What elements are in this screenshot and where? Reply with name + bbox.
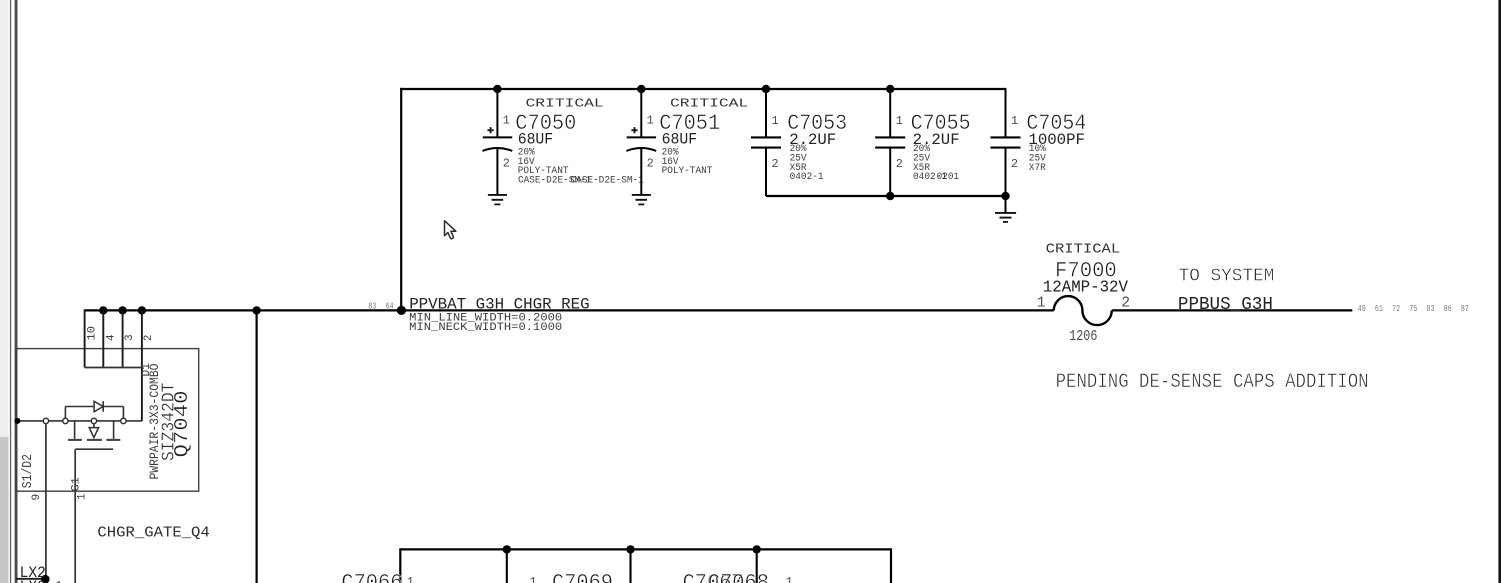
svg-text:86: 86 <box>1444 304 1452 314</box>
wire drain jog to pin2 <box>126 420 142 422</box>
body diode anode riser <box>64 407 66 419</box>
capacitor C7054 lead bottom <box>1005 148 1007 196</box>
svg-text:0402-1: 0402-1 <box>790 171 824 183</box>
capacitor C7055 lead bottom <box>889 148 891 196</box>
capacitor C7053 lead bottom <box>765 148 767 196</box>
svg-text:1: 1 <box>76 493 88 500</box>
svg-text:C7069: C7069 <box>552 571 613 583</box>
internal drain bar D1 <box>85 367 142 369</box>
svg-text:CRITICAL: CRITICAL <box>670 97 748 111</box>
svg-text:9: 9 <box>31 494 43 501</box>
node at sheet edge <box>14 418 20 424</box>
mosfet source stub left <box>74 421 76 439</box>
wire source/drain horizontal <box>16 420 121 422</box>
svg-text:1: 1 <box>647 113 654 127</box>
pin stub 2 / drain line <box>141 310 143 421</box>
fuse F7000 symbol <box>1054 296 1112 325</box>
wire LX2 stub <box>16 578 45 580</box>
svg-text:2: 2 <box>772 157 779 171</box>
wire top bus <box>400 88 1005 90</box>
mosfet channel bar left <box>68 439 82 441</box>
svg-text:75: 75 <box>1409 304 1417 314</box>
junction main wire x104 <box>99 306 107 314</box>
svg-text:CRITICAL: CRITICAL <box>1046 242 1121 258</box>
svg-text:Q7040: Q7040 <box>171 391 193 458</box>
svg-text:1: 1 <box>772 114 779 128</box>
svg-text:PPBUS_G3H: PPBUS_G3H <box>1178 294 1273 315</box>
svg-text:1206: 1206 <box>1069 329 1097 345</box>
capacitor C7055 (2.2UF) <box>875 85 970 196</box>
capacitor C7051 lead top <box>640 89 642 138</box>
svg-text:CASE-D2E-SM-1: CASE-D2E-SM-1 <box>571 175 644 187</box>
svg-text:1: 1 <box>503 113 510 127</box>
ground under C7050 <box>488 194 507 196</box>
capacitor C7051 plates <box>627 136 656 138</box>
capacitor C7050 (68UF poly-tant) <box>483 85 604 205</box>
svg-text:1: 1 <box>786 575 793 583</box>
capacitor C7055 lead top <box>889 89 891 138</box>
svg-text:4: 4 <box>106 334 118 340</box>
mouse cursor <box>445 221 456 239</box>
wire S1/D2 down <box>45 424 47 580</box>
wire gate down G1 <box>74 449 76 583</box>
transistor Q7040 body box <box>16 349 199 492</box>
junction main wire x142 <box>138 306 146 314</box>
svg-text:1: 1 <box>1011 114 1018 128</box>
capacitor C7050 lead top <box>496 89 498 138</box>
capacitor C7054 lead top <box>1005 88 1007 138</box>
capacitor C7050 polarity plus <box>488 129 494 131</box>
svg-text:TO SYSTEM: TO SYSTEM <box>1179 266 1275 287</box>
pin circle bulk <box>91 418 96 423</box>
svg-text:2: 2 <box>896 157 903 171</box>
mosfet channel bar middle <box>87 439 102 441</box>
capacitor C7050 plates <box>483 136 512 138</box>
svg-text:C7068: C7068 <box>708 571 769 583</box>
capacitor C7054 plates <box>991 136 1021 138</box>
mosfet gate bar <box>75 448 113 450</box>
svg-text:12AMP-32V: 12AMP-32V <box>1043 278 1128 296</box>
capacitor C7067 lead <box>756 549 758 583</box>
junction on bus at C7050 <box>493 85 501 93</box>
junction bottom bus C7066 <box>503 545 511 553</box>
body diode D <box>94 401 103 411</box>
svg-text:LX2: LX2 <box>20 578 46 583</box>
body diode top wire left <box>65 406 94 408</box>
capacitor C7055 plates <box>875 136 905 138</box>
svg-text:1: 1 <box>530 575 537 583</box>
junction main wire x123 <box>118 306 126 314</box>
mosfet bulk arrow stub <box>93 424 95 428</box>
svg-text:64: 64 <box>386 301 394 311</box>
pin stub 10 <box>84 309 86 367</box>
svg-text:2: 2 <box>143 335 155 341</box>
junction rail C7054 / ground <box>1001 192 1009 200</box>
svg-text:X7R: X7R <box>1029 162 1046 174</box>
pin circle drain <box>121 418 126 423</box>
svg-text:83: 83 <box>368 301 376 311</box>
svg-text:2: 2 <box>503 156 510 170</box>
svg-text:POLY-TANT: POLY-TANT <box>662 165 713 177</box>
ground symbol under rail <box>995 212 1016 214</box>
wire PPBUS_G3H (right of fuse) <box>1112 309 1353 311</box>
wire ground stem <box>1005 196 1007 213</box>
mosfet drain stub right <box>113 421 115 439</box>
svg-text:49: 49 <box>1358 304 1366 314</box>
svg-text:MIN_NECK_WIDTH=0.1000: MIN_NECK_WIDTH=0.1000 <box>409 322 562 334</box>
capacitor C7066 lead <box>506 549 508 583</box>
svg-text:61: 61 <box>1375 304 1383 314</box>
svg-text:CHGR_GATE_Q4: CHGR_GATE_Q4 <box>97 525 209 542</box>
junction main wire x257 <box>252 306 260 314</box>
junction on bus at C7055 <box>886 85 894 93</box>
capacitor C7054 (1000PF) <box>991 88 1087 196</box>
pin circle S2 <box>63 418 68 423</box>
svg-text:CRITICAL: CRITICAL <box>526 97 604 111</box>
capacitor C7053 lead top <box>765 89 767 138</box>
svg-text:C7066: C7066 <box>341 571 402 583</box>
ground under C7051 <box>632 194 651 196</box>
svg-text:2: 2 <box>1011 157 1018 171</box>
capacitor C7053 plates <box>751 136 781 138</box>
wire bottom bus <box>400 548 891 550</box>
capacitor C7053 (2.2UF) <box>751 85 847 196</box>
svg-text:3: 3 <box>124 334 136 340</box>
wire vertical bus to PPVBAT node <box>400 88 402 311</box>
mosfet channel bar right <box>106 439 120 441</box>
svg-text:1: 1 <box>1037 295 1046 311</box>
svg-text:PENDING DE-SENSE CAPS ADDITION: PENDING DE-SENSE CAPS ADDITION <box>1056 371 1369 394</box>
junction on bus at C7053 <box>762 85 770 93</box>
junction bottom bus C7069 <box>626 545 634 553</box>
capacitor C7051 polarity plus <box>631 129 637 131</box>
svg-text:1: 1 <box>407 575 414 583</box>
mosfet bulk arrow <box>89 428 98 438</box>
junction rail C7055 <box>886 192 894 200</box>
wire PPVBAT_G3H_CHGR_REG (left of fuse) <box>85 309 1054 311</box>
svg-text:G1: G1 <box>70 477 82 492</box>
svg-text:PPVBAT_G3H_CHGR_REG: PPVBAT_G3H_CHGR_REG <box>409 296 589 314</box>
svg-text:1: 1 <box>896 114 903 128</box>
capacitor C7069 lead <box>629 549 631 583</box>
wire bottom bus left drop <box>399 548 401 583</box>
pin circle S <box>43 418 48 423</box>
body diode top wire right <box>103 406 123 408</box>
svg-text:1: 1 <box>55 579 62 583</box>
svg-text:83: 83 <box>1427 304 1435 314</box>
svg-text:S1/D2: S1/D2 <box>20 454 36 488</box>
svg-text:72: 72 <box>1392 304 1400 314</box>
junction bottom bus C7067 <box>753 545 761 553</box>
node PPVBAT junction <box>397 306 406 315</box>
wire ceramic caps bottom rail <box>766 195 1006 197</box>
pin stub 4 <box>102 310 104 367</box>
svg-text:0201: 0201 <box>937 171 960 183</box>
capacitor C7051 (68UF poly-tant) <box>626 85 748 205</box>
wire branch down from x257 <box>256 310 258 583</box>
svg-text:87: 87 <box>1461 304 1469 314</box>
capacitor C7051 lead bottom <box>640 149 642 195</box>
junction on bus at C7051 <box>637 85 645 93</box>
junction LX2 <box>41 575 50 583</box>
svg-text:10: 10 <box>86 326 98 341</box>
pin stub 3 <box>122 310 124 367</box>
svg-text:2: 2 <box>647 156 654 170</box>
wire bottom bus right drop <box>890 548 892 583</box>
capacitor C7050 lead bottom <box>496 149 498 195</box>
svg-text:2: 2 <box>1121 295 1130 311</box>
